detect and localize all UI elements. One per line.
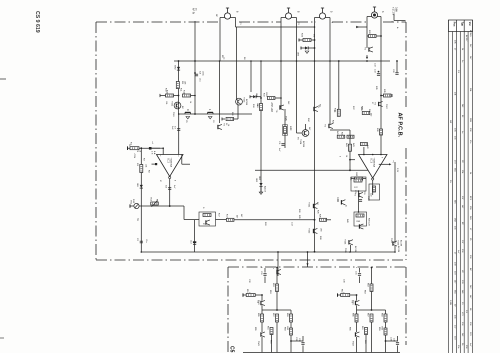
resistor L-R51 (246, 294, 255, 297)
left margin tick 2 (0, 337, 4, 339)
resistor R-R55 (355, 314, 358, 322)
svg-text:1k: 1k (256, 104, 258, 106)
wire rail y206 (130, 205, 184, 207)
wire x251 drop (250, 61, 252, 92)
svg-text:IC 2: IC 2 (167, 159, 170, 164)
capacitor C20 (395, 72, 398, 74)
capacitor R-C31 (359, 268, 361, 273)
transistor TS29 (392, 241, 394, 245)
transistor TS25 (279, 105, 281, 109)
svg-text:TS31: TS31 (308, 202, 310, 208)
table column lines (448, 20, 450, 353)
resistor R1 input (130, 147, 139, 150)
junction dots (260, 60, 262, 62)
op-amp U2 top pin wire (363, 147, 365, 155)
capacitor R-C33 (397, 336, 399, 342)
resistor R14 with arrow (151, 202, 159, 205)
junction L- out (290, 340, 292, 342)
wire conn P3 left drop (315, 17, 320, 19)
transistor TS24 circle (302, 130, 309, 137)
wire L- top link (261, 267, 263, 270)
terminal input left (127, 146, 129, 150)
resistor R41 R42 (337, 135, 345, 138)
wire x278 through border (277, 252, 279, 276)
junction x178 y95 (178, 95, 180, 97)
potentiometer R13 volume (134, 203, 139, 208)
transistor TS30 (340, 200, 342, 204)
junction x261 y98 (260, 97, 262, 99)
resistor R15 in box (203, 214, 211, 217)
wire TS24 up (305, 124, 307, 130)
wire x184 drop (183, 206, 185, 220)
lower board outline right edge (405, 267, 407, 345)
resistor R49 in box B2 (356, 214, 364, 217)
resistor R-R53 vertical (370, 284, 373, 292)
junction rail61 x178 (178, 60, 180, 62)
terminal arrow x358 (356, 26, 359, 28)
svg-text:4 A: 4 A (153, 151, 156, 155)
transistor TS21 (174, 102, 181, 109)
resistor R43 vertical (349, 144, 352, 151)
wire conn P1 left drop lower (219, 61, 221, 123)
ground below GR3 (259, 192, 263, 194)
capacitor C9 output (168, 187, 171, 189)
box B1 (351, 177, 366, 191)
transistor TS29b (276, 270, 278, 274)
resistor R-R61 (365, 328, 368, 335)
transistor TS27 (378, 102, 380, 106)
svg-text:1k: 1k (345, 155, 347, 157)
terminal y206 left (129, 204, 131, 207)
resistor R39 (362, 112, 370, 115)
wire x238 emitter (237, 105, 239, 119)
wire rail y170 (255, 169, 369, 171)
diode GR5 (253, 95, 256, 98)
board outline right edge (405, 22, 407, 108)
capacitor C4 on x195 (194, 72, 196, 74)
svg-text:TS32: TS32 (308, 228, 310, 234)
transistor L-TS42 (260, 332, 262, 336)
lower board outline top edge (228, 266, 406, 268)
svg-text:470k: 470k (133, 154, 135, 158)
wire conn P2 right drop (292, 17, 297, 19)
wire opamp U1 output (169, 179, 171, 206)
svg-text:TS21: TS21 (171, 101, 173, 107)
wire R- input stub (338, 294, 341, 296)
transistor TS23 circle (236, 98, 243, 105)
wire x285 chain (284, 109, 286, 148)
transistor TS22 (217, 125, 219, 129)
resistor R18 vertical (260, 104, 263, 111)
svg-text:1W: 1W (449, 120, 451, 123)
capacitor L-C33 (302, 336, 304, 342)
svg-text:0,6A: 0,6A (395, 7, 398, 12)
wire R- top link (356, 267, 358, 270)
svg-text:1k: 1k (189, 101, 191, 103)
wire conn P2 left drop (281, 17, 286, 19)
resistor R21 vertical boxed (282, 125, 287, 135)
wire x350 drop (330, 129, 350, 131)
wire x236 to TS23 (236, 97, 238, 100)
wire bus y27 (236, 26, 315, 28)
op-amp U1 minus input pin (155, 163, 157, 165)
wire box B1 to B2 (358, 191, 360, 212)
resistor R36 on x381 (380, 129, 383, 135)
svg-text:10u: 10u (145, 239, 147, 242)
transistor L-TS41 (260, 301, 262, 305)
capacitor C19 (378, 71, 380, 73)
svg-text:TS23: TS23 (243, 97, 245, 103)
op-amp U1 output circle (169, 176, 171, 178)
svg-text:100n: 100n (201, 71, 203, 75)
svg-text:TCA335A: TCA335A (170, 158, 173, 168)
junction input x141 (140, 147, 142, 149)
transistor TS32 (312, 229, 314, 233)
capacitor C2 on x141 (140, 240, 143, 242)
block R23 top right (303, 39, 311, 42)
resistor R10 (166, 94, 174, 97)
svg-text:CS 9 619: CS 9 619 (34, 11, 40, 33)
capacitor C14 on x194 (194, 220, 196, 252)
wire conn P4 right drop (378, 16, 382, 18)
resistor R11 (183, 94, 191, 97)
svg-text:BC548: BC548 (469, 30, 471, 37)
transistor TS34 (358, 224, 360, 228)
connector P4 (371, 12, 377, 18)
svg-text:AC127: AC127 (465, 35, 468, 42)
diode D1 on x178 (177, 67, 180, 70)
arrow into rail x367 (366, 55, 368, 59)
junction x350 y170 (349, 169, 351, 171)
op-amp U2 triangle (359, 155, 388, 179)
svg-text:1: 1 (178, 156, 179, 158)
svg-text:12k: 12k (165, 101, 167, 104)
resistor L-R63 (290, 328, 293, 335)
filter box (199, 212, 216, 226)
svg-text:BC: BC (461, 222, 463, 225)
resistor R8 on x178 (176, 82, 179, 89)
wire conn P3 right drop (326, 17, 331, 19)
connector P3 (319, 13, 325, 19)
transistor R-TS41 (354, 301, 356, 305)
junction rail220 x314 (314, 219, 316, 221)
svg-text:AA119: AA119 (264, 186, 267, 193)
svg-text:log: log (137, 218, 139, 221)
svg-text:1n: 1n (223, 57, 225, 59)
resistor R-R63 (384, 328, 387, 335)
transistor R-TS42 (354, 332, 356, 336)
transistor TS28 (328, 124, 330, 128)
resistor R17 (226, 218, 234, 221)
wire rail y61 (174, 60, 390, 62)
op-amp U2 apex circle (372, 178, 374, 180)
junction y252 x314 (314, 251, 316, 253)
vertical wire x261 (260, 61, 262, 193)
table header box (449, 20, 473, 32)
wire R19 right (275, 97, 281, 99)
wire input left (128, 147, 161, 149)
resistor R25 on rail220 (320, 218, 327, 221)
svg-text:1k: 1k (227, 124, 229, 126)
resistor R35 (383, 94, 391, 97)
resistor L-R53 vertical (276, 284, 279, 292)
transistor TS35 (348, 240, 350, 244)
board outline top edge (96, 21, 218, 23)
resistor R37 (337, 109, 340, 116)
svg-text:5%: 5% (449, 180, 451, 183)
trimmer X2 on rail114 (208, 111, 214, 113)
svg-text:IC 3: IC 3 (370, 159, 373, 164)
svg-text:Val: Val (468, 22, 471, 26)
svg-text:470k: 470k (137, 151, 141, 153)
transistor TS26 (368, 47, 370, 51)
wire to opamp top (150, 147, 163, 149)
junction rail114 x195 (194, 113, 196, 115)
capacitor C7 on x178 drop (177, 128, 180, 130)
svg-text:AC: AC (469, 268, 472, 271)
junction rail61 x195 (194, 60, 196, 62)
resistor R-R59 (384, 314, 387, 322)
svg-text:C5: C5 (229, 346, 235, 353)
transistor TS in box (205, 220, 207, 224)
connector P1 (224, 13, 230, 19)
wire R- x0+57 up (385, 341, 387, 352)
wire rail y252 (141, 251, 395, 253)
wire x195 drop (194, 21, 196, 114)
svg-text:56k: 56k (368, 109, 370, 112)
svg-text:2 X: 2 X (151, 151, 153, 155)
svg-text:10k: 10k (145, 164, 147, 167)
wire U2 apex down (372, 180, 374, 195)
junction rail61 x367 (366, 60, 368, 62)
wire x178 chain (178, 61, 180, 114)
transistor TS31 (312, 204, 314, 208)
wire +17V feed (393, 14, 395, 21)
svg-text:ANT-LIM: ANT-LIM (270, 103, 273, 112)
lower board outline left edge (227, 267, 229, 353)
resistor R47 in box B1 (354, 179, 362, 182)
resistor L-R57 (276, 314, 279, 322)
op-amp U1 triangle (157, 155, 184, 177)
transistor TS on x314 (313, 107, 315, 111)
wire box to R17 (216, 219, 227, 221)
svg-text:7: 7 (160, 156, 161, 158)
board outline bottom edge (96, 259, 406, 261)
op-amp U2 output (379, 163, 390, 165)
diode GR6 with ground (301, 47, 305, 49)
junction y206 x169 (169, 205, 171, 207)
lower bottom rail (243, 352, 400, 353)
svg-text:0,5W: 0,5W (449, 300, 451, 305)
svg-text:10u: 10u (199, 78, 201, 81)
svg-text:GR2: GR2 (174, 65, 176, 70)
wire L- input stub (243, 294, 246, 296)
svg-text:BC158: BC158 (354, 246, 356, 253)
resistor R-R51 (341, 294, 350, 297)
trimmer X1 on rail114 (185, 111, 191, 113)
capacitor C11 (281, 143, 284, 145)
resistor R3 vertical (140, 165, 143, 173)
op-amp U1 right pin drop (181, 155, 183, 165)
diode GR3 lower (259, 183, 262, 186)
svg-text:c: c (272, 268, 274, 269)
board outline left edge (95, 22, 97, 260)
transistor TS33 (358, 193, 360, 197)
arrow x307 through border (307, 252, 309, 267)
wire conn P4 left drop (367, 16, 372, 18)
wire L- collector rail (262, 309, 291, 311)
junction square x150 (149, 147, 152, 150)
wire R- collector rail (357, 309, 386, 311)
wire R- to base (350, 294, 357, 296)
wire stub left y95 (160, 95, 179, 97)
network box B3 (369, 184, 380, 200)
wire x178 to opamp (178, 114, 180, 155)
svg-text:AF IN: AF IN (192, 8, 195, 14)
resistor L-R59 (290, 314, 293, 322)
svg-text:BC158: BC158 (397, 246, 399, 253)
svg-text:56k: 56k (313, 34, 315, 37)
wire conn P1 right drop (231, 17, 236, 19)
resistor L-R61 (270, 328, 273, 335)
svg-text:0,9V: 0,9V (396, 168, 398, 173)
left margin tick (0, 78, 6, 80)
svg-text:Pos: Pos (453, 22, 456, 27)
connector P2 (285, 13, 291, 19)
wire into filter box (184, 219, 199, 221)
wire branch x236 (236, 27, 238, 97)
svg-text:TS35: TS35 (344, 239, 346, 245)
svg-text:TS24: TS24 (299, 139, 301, 145)
svg-text:BC548: BC548 (302, 141, 304, 148)
vertical wire x395 (394, 162, 396, 244)
wire L- to base (255, 294, 262, 296)
wire rail y220 (234, 219, 315, 221)
resistor R16 (226, 118, 234, 121)
wire L- x0+57 up (290, 341, 292, 352)
wire R11 to x195 (191, 95, 196, 97)
resistor R19 (267, 97, 275, 100)
junction R- out (385, 340, 387, 342)
resistor R45 below U2 (355, 177, 363, 180)
resistor L-R55 (261, 314, 264, 322)
wire rail y114 (179, 113, 253, 115)
svg-text:TCA335A: TCA335A (373, 158, 376, 168)
svg-text:BC548: BC548 (245, 99, 247, 106)
resistor R33 right top (369, 35, 377, 38)
box B2 (354, 212, 367, 226)
wire conn P1 left drop (220, 17, 225, 19)
vertical wire x141 (140, 148, 142, 252)
wire TS24 base (296, 130, 298, 133)
resistor R-R57 (370, 314, 373, 322)
svg-text:AF P.C.B.: AF P.C.B. (397, 113, 403, 138)
svg-text:Typ: Typ (460, 22, 463, 27)
diode GR1 on x141 (140, 185, 143, 188)
terminal left y95 (159, 94, 161, 97)
capacitor L-C31 (264, 268, 266, 273)
junction x350 y159 (349, 159, 351, 161)
